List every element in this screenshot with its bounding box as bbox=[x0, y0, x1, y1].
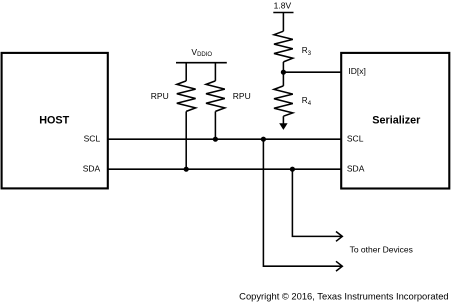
wire SCL bus HOST to Serializer bbox=[108, 138, 341, 140]
ground arrow below R4 bbox=[279, 116, 287, 130]
svg-text:SCL: SCL bbox=[347, 134, 364, 144]
node junction R3 R4 ID[x] bbox=[281, 70, 286, 75]
node junction SCL branch bbox=[261, 137, 266, 142]
svg-text:ID[x]: ID[x] bbox=[348, 66, 365, 76]
svg-text:RPU: RPU bbox=[151, 91, 169, 101]
wire VDDIO rail to right RPU bbox=[214, 63, 216, 81]
wire SDA branch down and right bbox=[292, 169, 342, 236]
svg-text:SCL: SCL bbox=[84, 134, 101, 144]
svg-text:SDA: SDA bbox=[347, 164, 365, 174]
resistor R4 bbox=[274, 86, 312, 116]
wire SCL branch down and right bbox=[263, 139, 342, 266]
wire R3 to node bbox=[282, 62, 284, 72]
wire node to ID[x] pin bbox=[283, 71, 341, 73]
svg-text:SDA: SDA bbox=[83, 164, 101, 174]
svg-text:HOST: HOST bbox=[39, 115, 69, 127]
resistor RPU right (SCL pull-up) bbox=[206, 81, 251, 112]
HOST block bbox=[2, 53, 108, 189]
svg-text:1.8V: 1.8V bbox=[274, 1, 292, 11]
power rail VDDIO bbox=[176, 47, 227, 63]
svg-text:Copyright © 2016, Texas Instru: Copyright © 2016, Texas Instruments Inco… bbox=[239, 291, 448, 302]
wire node to R4 bbox=[282, 72, 284, 86]
svg-text:RPU: RPU bbox=[233, 91, 251, 101]
node junction RPU left on SDA bbox=[184, 167, 189, 172]
wire RPU right to SCL node bbox=[214, 111, 216, 139]
node junction RPU right on SCL bbox=[213, 137, 218, 142]
wire SDA bus HOST to Serializer bbox=[108, 168, 341, 170]
power rail 1.8V bbox=[273, 1, 293, 13]
arrow SDA to other devices bbox=[336, 232, 342, 242]
resistor RPU left (SDA pull-up) bbox=[151, 81, 196, 112]
svg-text:To other Devices: To other Devices bbox=[350, 244, 413, 254]
Serializer block bbox=[341, 53, 449, 189]
wire RPU left to SDA node bbox=[185, 111, 187, 169]
wire 1.8V rail to R3 bbox=[282, 13, 284, 32]
resistor R3 bbox=[274, 31, 312, 62]
node junction SDA branch bbox=[290, 167, 295, 172]
wire VDDIO rail to left RPU bbox=[185, 63, 187, 81]
arrow SCL to other devices bbox=[336, 261, 342, 271]
svg-text:Serializer: Serializer bbox=[372, 115, 421, 127]
